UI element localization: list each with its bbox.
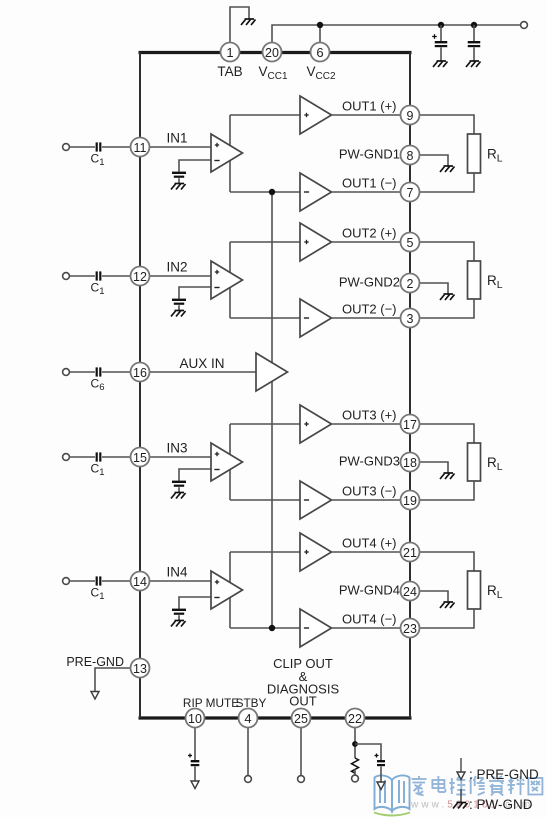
wire PW-GND2 stub — [420, 283, 449, 294]
svg-text:OUT2 (−): OUT2 (−) — [342, 302, 397, 317]
svg-text:IN1: IN1 — [166, 131, 187, 146]
svg-text:OUT1 (−): OUT1 (−) — [342, 176, 397, 191]
wire pin 22 branch to cap — [355, 744, 381, 760]
minus mark input amp ch2 — [214, 287, 219, 289]
wire OUT3+ to pin 17 — [332, 423, 401, 425]
wire VCC2 riser — [319, 25, 321, 43]
wire load resistor bottom ch3 — [420, 481, 475, 500]
wire splitter vertical ch4 — [229, 552, 231, 628]
op-amp aux stage — [256, 353, 288, 391]
svg-text:OUT: OUT — [289, 694, 317, 709]
svg-text:STBY: STBY — [236, 696, 267, 710]
wire cap to pin 14 — [102, 580, 131, 582]
input terminal IN4 — [63, 578, 70, 585]
wire input terminal to C1 cap — [70, 146, 96, 148]
legend pw-gnd symbol — [460, 789, 462, 803]
resistor RL ch3 — [468, 443, 481, 481]
capacitor at pin 22 branch — [377, 760, 385, 766]
svg-text:: PW-GND: : PW-GND — [469, 797, 533, 812]
ground at PW-GND4 pin — [440, 602, 455, 608]
polarity + of supply electrolytic — [432, 34, 437, 39]
wire splitter vertical ch2 — [229, 242, 231, 318]
capacitor C1 input ch4 — [96, 576, 102, 585]
svg-text:AUX IN: AUX IN — [179, 356, 224, 371]
wire to supply capacitor 2 — [473, 25, 475, 41]
wire OUT2+ to pin 5 — [332, 241, 401, 243]
svg-text:OUT3 (−): OUT3 (−) — [342, 484, 397, 499]
IC package outline — [139, 52, 412, 718]
svg-text:IN4: IN4 — [166, 565, 188, 580]
wire inverting input to bypass cap ch2 — [179, 287, 211, 299]
pre-gnd arrow below pin 10 — [191, 781, 199, 789]
wire OUT1+ to pin 9 — [332, 114, 401, 116]
wire cap to pin 11 — [102, 146, 131, 148]
minus mark input amp ch1 — [214, 160, 219, 162]
svg-text:7: 7 — [407, 186, 414, 200]
wire diagnosis bus vertical — [271, 192, 273, 628]
svg-text:OUT4 (−): OUT4 (−) — [342, 612, 397, 627]
op-amp output stage - ch3 — [300, 481, 332, 519]
wire cap to pin 12 — [102, 275, 131, 277]
svg-text:8: 8 — [407, 149, 414, 163]
svg-text:22: 22 — [348, 712, 362, 726]
bypass capacitor ch4 — [172, 609, 186, 615]
capacitor C1 input ch3 — [96, 452, 102, 461]
svg-text:15: 15 — [133, 451, 147, 465]
polarity + branch cap — [375, 754, 379, 758]
wire OUT1- to pin 7 — [332, 191, 401, 193]
terminal below pin 4 — [245, 776, 252, 783]
wire pin 25 to terminal — [300, 728, 302, 776]
wire inverting input to bypass cap ch3 — [179, 469, 211, 481]
svg-text:: PRE-GND: : PRE-GND — [469, 767, 539, 782]
pin 8 (PW-GND1) — [401, 146, 420, 165]
supply electrolytic capacitor — [435, 41, 448, 47]
ground below supply electrolytic (PW-GND) — [433, 61, 448, 67]
junction VCC2 on rail — [317, 22, 323, 28]
plus mark input amp ch4 — [215, 580, 219, 584]
ground at TAB (PW-GND) — [241, 19, 256, 25]
wire OUT4- to pin 23 — [332, 627, 401, 629]
wire to inverting power amp ch3 — [230, 499, 300, 501]
minus mark input amp ch3 — [214, 469, 219, 471]
pin 24 (PW-GND4) — [401, 582, 420, 601]
svg-text:PW-GND4: PW-GND4 — [339, 583, 400, 598]
resistor RL ch4 — [468, 571, 481, 609]
wire load resistor top ch1 — [420, 115, 475, 134]
pin 5 (OUT2+) — [401, 233, 420, 252]
pin 7 (OUT1-) — [401, 183, 420, 202]
svg-text:4: 4 — [244, 711, 251, 726]
capacitor C1 input ch2 — [96, 271, 102, 280]
terminal below pin 25 — [298, 776, 305, 783]
wire inverting input to bypass cap ch1 — [179, 160, 211, 172]
polarity + ripple cap — [188, 754, 192, 758]
wire to non-inverting power amp ch2 — [230, 241, 300, 243]
watermark chinese text — [412, 776, 543, 796]
svg-text:23: 23 — [403, 622, 417, 636]
svg-text:13: 13 — [133, 662, 147, 676]
wire splitter vertical ch1 — [229, 115, 231, 192]
pin 23 (OUT4-) — [401, 619, 420, 638]
bypass capacitor ch1 — [172, 172, 186, 178]
pin 1 (TAB) — [221, 43, 240, 62]
svg-text:17: 17 — [403, 418, 417, 432]
supply capacitor 2 — [468, 41, 481, 47]
pin 17 (OUT3+) — [401, 415, 420, 434]
op-amp output stage + ch3 — [300, 405, 332, 443]
wire input terminal to C1 cap — [70, 275, 96, 277]
op-amp output stage + ch4 — [300, 533, 332, 571]
pin 3 (OUT2-) — [401, 309, 420, 328]
legend pw-gnd ground — [453, 803, 468, 809]
svg-text:11: 11 — [134, 141, 147, 155]
legend pre-gnd symbol — [457, 758, 465, 780]
wire pin 11 to input amp — [150, 146, 212, 148]
wire input terminal to C1 cap — [70, 580, 96, 582]
pin 2 (PW-GND2) — [401, 274, 420, 293]
wire OUT4+ to pin 21 — [332, 551, 401, 553]
wire to supply capacitor C (electrolytic) — [440, 25, 442, 41]
wire pin 14 to input amp — [150, 580, 212, 582]
wire load resistor bottom ch2 — [420, 299, 475, 318]
svg-text:12: 12 — [133, 270, 147, 284]
wire VCC1 riser and supply rail — [272, 25, 521, 43]
plus mark input amp ch3 — [215, 452, 219, 456]
wire bypass cap to ground ch1 — [178, 178, 180, 183]
wire PW-GND3 stub — [420, 462, 449, 473]
svg-text:20: 20 — [265, 46, 279, 60]
pin 21 (OUT4+) — [401, 543, 420, 562]
wire OUT3- to pin 19 — [332, 499, 401, 501]
wire resistor to terminal — [354, 769, 356, 776]
wire inverting input to bypass cap ch4 — [179, 597, 211, 609]
wire load resistor top ch2 — [420, 242, 475, 261]
pin 16 (AUX IN) — [131, 363, 150, 382]
terminal below pin 22 — [352, 775, 359, 782]
wire load resistor top ch4 — [420, 552, 475, 571]
op-amp input stage ch4 — [211, 571, 243, 609]
capacitor C6 — [96, 367, 102, 376]
ground at PW-GND3 pin — [440, 473, 455, 479]
wire pin 10 to ripple cap — [194, 728, 196, 761]
junction bus to OUT4- wire — [269, 625, 275, 631]
minus mark output amp ch2 — [304, 317, 309, 319]
ripple capacitor at pin 10 — [191, 760, 200, 766]
op-amp input stage ch1 — [211, 134, 243, 172]
pre-gnd arrow at pin 13 — [91, 690, 99, 699]
op-amp output stage - ch1 — [300, 173, 332, 211]
plus mark output amp ch2 — [304, 240, 308, 244]
ground below supply cap 2 (PW-GND) — [466, 61, 481, 67]
wire load resistor bottom ch1 — [420, 173, 475, 192]
pin 25 (CLIP OUT) — [292, 709, 311, 728]
ground below bypass cap ch4 (PW-GND) — [171, 621, 186, 627]
wire to non-inverting power amp ch1 — [230, 114, 300, 116]
plus mark output amp ch4 — [304, 550, 308, 554]
pin 22 — [346, 709, 365, 728]
pin 6 (VCC2) — [311, 43, 330, 62]
svg-text:IN3: IN3 — [166, 441, 187, 456]
wire input terminal to C1 cap — [70, 456, 96, 458]
wire OUT2- to pin 3 — [332, 317, 401, 319]
wire load resistor top ch3 — [420, 424, 475, 443]
resistor RL ch1 — [468, 134, 481, 173]
svg-text:9: 9 — [407, 109, 414, 123]
op-amp output stage + ch1 — [300, 96, 332, 134]
ground below bypass cap ch2 (PW-GND) — [171, 311, 186, 317]
wire aux terminal to C6 — [70, 371, 96, 373]
svg-text:10: 10 — [188, 712, 202, 726]
minus mark output amp ch4 — [304, 627, 309, 629]
wire supply cap 2 to ground — [473, 48, 475, 62]
wire pin 16 to aux amp — [150, 371, 257, 373]
wire branch cap to pre-gnd — [380, 767, 382, 783]
svg-text:PRE-GND: PRE-GND — [66, 655, 124, 669]
pin 13 (PRE-GND) — [131, 659, 150, 678]
capacitor C1 input ch1 — [96, 142, 102, 151]
svg-text:PW-GND2: PW-GND2 — [339, 275, 400, 290]
svg-text:21: 21 — [403, 546, 417, 560]
op-amp input stage ch3 — [211, 443, 243, 481]
wire to non-inverting power amp ch3 — [230, 423, 300, 425]
pin 18 (PW-GND3) — [401, 453, 420, 472]
plus mark input amp ch2 — [215, 270, 219, 274]
supply terminal — [521, 22, 528, 29]
wire ripple cap to pre-gnd — [194, 767, 196, 782]
bypass capacitor ch3 — [172, 481, 186, 487]
svg-text:PW-GND1: PW-GND1 — [339, 147, 400, 162]
svg-text:19: 19 — [403, 494, 417, 508]
op-amp input stage ch2 — [211, 261, 243, 299]
junction below pin 22 — [352, 741, 358, 747]
pin 19 (OUT3-) — [401, 491, 420, 510]
ground below bypass cap ch1 (PW-GND) — [171, 184, 186, 190]
minus mark output amp ch3 — [304, 499, 309, 501]
svg-text:1: 1 — [226, 45, 233, 60]
wire pin 4 to terminal — [247, 728, 249, 776]
wire PW-GND1 stub — [420, 155, 449, 166]
pin 4 (STBY) — [239, 709, 258, 728]
plus mark output amp ch1 — [304, 113, 308, 117]
minus mark input amp ch4 — [214, 597, 219, 599]
pin 9 (OUT1+) — [401, 106, 420, 125]
wire bypass cap to ground ch3 — [178, 487, 180, 492]
pin 12 (IN2) — [131, 267, 150, 286]
input terminal AUX — [63, 369, 70, 376]
junction bus to OUT1- wire — [269, 189, 275, 195]
resistor below pin 22 — [352, 758, 359, 773]
wire to inverting power amp ch2 — [230, 317, 300, 319]
wire pin 12 to input amp — [150, 275, 212, 277]
input terminal IN2 — [63, 273, 70, 280]
pin 15 (IN3) — [131, 448, 150, 467]
junction supply cap 2 — [471, 22, 477, 28]
plus mark output amp ch3 — [304, 422, 308, 426]
bypass capacitor ch2 — [172, 299, 186, 305]
wire bypass cap to ground ch2 — [178, 305, 180, 310]
pre-gnd arrow below pin 22 branch — [377, 782, 385, 790]
svg-text:OUT3 (+): OUT3 (+) — [342, 408, 397, 423]
wire to inverting power amp ch1 — [230, 191, 300, 193]
ground at PW-GND1 pin — [440, 166, 455, 172]
svg-text:5: 5 — [407, 236, 414, 250]
pin 10 (RIP MUTE) — [186, 709, 205, 728]
op-amp output stage + ch2 — [300, 223, 332, 261]
svg-text:3: 3 — [407, 312, 414, 326]
plus mark input amp ch1 — [215, 143, 219, 147]
svg-text:PW-GND3: PW-GND3 — [339, 454, 400, 469]
wire PW-GND4 stub — [420, 591, 449, 602]
svg-text:25: 25 — [294, 712, 308, 726]
svg-text:18: 18 — [403, 456, 417, 470]
wire to inverting power amp ch4 — [230, 627, 300, 629]
svg-text:14: 14 — [133, 575, 147, 589]
minus mark output amp ch1 — [304, 191, 309, 193]
op-amp output stage - ch2 — [300, 299, 332, 337]
junction supply cap 1 — [438, 22, 444, 28]
input terminal IN1 — [63, 144, 70, 151]
watermark book icon — [374, 775, 410, 815]
resistor RL ch2 — [468, 261, 481, 299]
svg-text:OUT2 (+): OUT2 (+) — [342, 226, 397, 241]
wire pin 15 to input amp — [150, 456, 212, 458]
svg-text:TAB: TAB — [217, 64, 242, 79]
svg-text:16: 16 — [133, 366, 147, 380]
svg-text:2: 2 — [407, 277, 414, 291]
svg-text:6: 6 — [316, 45, 323, 60]
wire cap to pin 15 — [102, 456, 131, 458]
wire C6 to pin 16 — [102, 371, 131, 373]
wire to non-inverting power amp ch4 — [230, 551, 300, 553]
wire supply cap to ground — [440, 48, 442, 62]
pin 20 (VCC1) — [263, 43, 282, 62]
svg-text:IN2: IN2 — [166, 260, 187, 275]
wire splitter vertical ch3 — [229, 424, 231, 500]
op-amp output stage - ch4 — [300, 609, 332, 647]
svg-text:RIP MUTE: RIP MUTE — [183, 696, 239, 710]
svg-text:OUT4 (+): OUT4 (+) — [342, 536, 397, 551]
wire pin 22 down — [354, 728, 356, 759]
ground below bypass cap ch3 (PW-GND) — [171, 493, 186, 499]
wire load resistor bottom ch4 — [420, 609, 475, 628]
svg-text:24: 24 — [403, 585, 417, 599]
svg-text:OUT1 (+): OUT1 (+) — [342, 99, 397, 114]
input terminal IN3 — [63, 454, 70, 461]
wire bypass cap to ground ch4 — [178, 615, 180, 620]
pin 14 (IN4) — [131, 572, 150, 591]
wire pin 13 to pre-gnd arrow — [95, 668, 131, 690]
wire TAB to ground — [230, 7, 249, 43]
pin 11 (IN1) — [131, 138, 150, 157]
ground at PW-GND2 pin — [440, 294, 455, 300]
